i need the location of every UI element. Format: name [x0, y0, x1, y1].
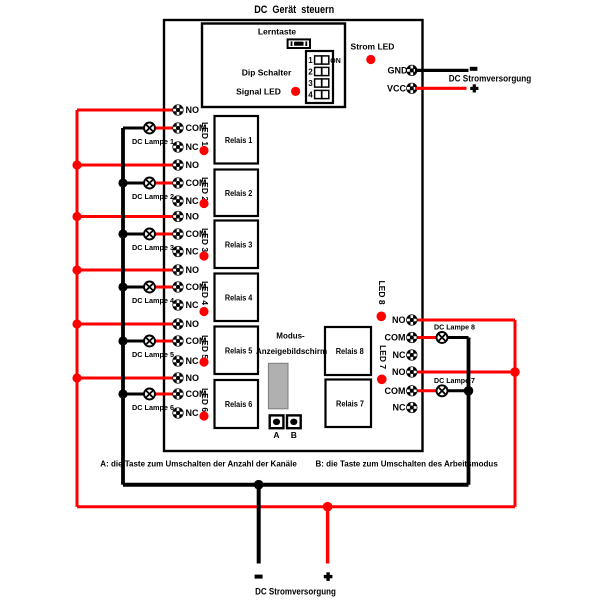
svg-text:Relais 6: Relais 6: [225, 400, 253, 409]
svg-text:Signal LED: Signal LED: [236, 87, 281, 97]
terminal NC ch4: [172, 299, 183, 310]
lamp symbol DC Lampe 6: [144, 389, 155, 400]
wire: lamp ch5 to black bus: [123, 340, 150, 343]
wire: red bus to NO terminal ch3: [77, 215, 178, 218]
svg-text:DC Lampe 5: DC Lampe 5: [132, 350, 175, 359]
svg-text:NC: NC: [186, 247, 199, 257]
wire: COM terminal ch2 to lamp (red): [150, 182, 179, 185]
svg-text:Relais 8: Relais 8: [336, 347, 365, 356]
terminal COM ch7: [406, 385, 417, 396]
svg-text:NC: NC: [186, 408, 199, 418]
svg-text:DC Stromversorgung: DC Stromversorgung: [255, 586, 336, 596]
svg-text:Relais 7: Relais 7: [336, 399, 365, 408]
terminal COM ch4: [172, 281, 183, 292]
junction on black bus at COM y=234: [118, 229, 127, 238]
svg-text:NO: NO: [186, 373, 200, 383]
junction lamp7 return on black bus: [464, 386, 474, 396]
LED 2 (red): [199, 199, 208, 208]
svg-text:DC Stromversorgung: DC Stromversorgung: [449, 74, 532, 84]
svg-text:COM: COM: [385, 333, 406, 343]
svg-text:NC: NC: [186, 142, 199, 152]
button B: [287, 415, 301, 428]
svg-text:NC: NC: [393, 403, 406, 413]
junction red supply drop: [323, 502, 333, 512]
Signal LED (red): [291, 87, 300, 96]
svg-text:DC Lampe 4: DC Lampe 4: [132, 296, 175, 305]
terminal NC ch3: [172, 246, 183, 257]
svg-text:LED 2: LED 2: [200, 177, 210, 201]
svg-text:NC: NC: [186, 300, 199, 310]
wire: right black bus: [467, 338, 471, 485]
supply minus symbol (bottom): [255, 575, 263, 579]
wire: lamp ch1 to black bus: [123, 127, 150, 130]
junction on black bus at COM y=341: [118, 336, 127, 345]
terminal NO ch4: [172, 264, 183, 275]
relay Relais 3: [215, 221, 259, 269]
svg-text:Relais 2: Relais 2: [225, 189, 253, 198]
junction black supply drop: [254, 480, 264, 490]
svg-text:DC Lampe 1: DC Lampe 1: [132, 137, 175, 146]
wire: left black bus (lamp return rail): [121, 128, 125, 485]
terminal COM ch1: [172, 122, 183, 133]
wire: lamp ch8 to right black bus: [442, 336, 469, 339]
junction on red bus at NO y=378: [72, 373, 81, 382]
wire: black drop to supply minus: [257, 485, 261, 564]
wire: NO ch7 to right red bus: [412, 371, 515, 374]
wire: red bus to NO terminal ch4: [77, 269, 178, 272]
terminal NC ch6: [172, 407, 183, 418]
relay Relais 2: [215, 170, 259, 217]
lamp symbol DC Lampe 5: [144, 336, 155, 347]
relay Relais 6: [215, 380, 259, 428]
svg-text:VCC: VCC: [387, 83, 407, 93]
LED 8 (red): [377, 312, 387, 322]
lamp symbol DC Lampe 7: [437, 385, 448, 396]
wire: NO ch8 to right red bus: [412, 319, 515, 322]
supply minus symbol (top): [470, 67, 478, 71]
svg-text:3: 3: [308, 79, 313, 88]
relay Relais 5: [215, 327, 259, 375]
svg-text:DC Lampe 3: DC Lampe 3: [132, 243, 174, 252]
terminal NO ch2: [172, 159, 183, 170]
wire: COM ch7 to lamp (red): [412, 389, 442, 392]
svg-text:Relais 5: Relais 5: [225, 346, 253, 355]
wire: left red bus (NO rail): [76, 110, 79, 507]
svg-text:B: die Taste zum Umschalten de: B: die Taste zum Umschalten des Arbeitsm…: [316, 460, 499, 469]
terminal NC ch5: [172, 355, 183, 366]
junction on red bus at NO y=216.5: [72, 212, 81, 221]
relay Relais 4: [215, 274, 259, 322]
wire: red bus to NO terminal ch5: [77, 323, 178, 326]
svg-text:ON: ON: [330, 58, 341, 65]
lamp symbol DC Lampe 4: [144, 282, 155, 293]
svg-text:LED 4: LED 4: [200, 281, 210, 305]
svg-text:NC: NC: [186, 196, 199, 206]
LED 6 (red): [199, 411, 208, 420]
terminal NO ch1: [172, 104, 183, 115]
junction on black bus at COM y=394: [118, 389, 127, 398]
svg-text:1: 1: [308, 56, 313, 65]
junction on red bus at NO y=165: [72, 160, 81, 169]
svg-text:GND: GND: [388, 66, 409, 76]
svg-text:Relais 3: Relais 3: [225, 240, 253, 249]
wire: COM terminal ch1 to lamp (red): [150, 127, 179, 130]
svg-text:NO: NO: [186, 212, 200, 222]
svg-text:4: 4: [308, 91, 313, 100]
relay Relais 1: [215, 116, 259, 164]
module outline box: [164, 20, 423, 451]
svg-text:NO: NO: [186, 105, 200, 115]
svg-text:Anzeigebildschirm: Anzeigebildschirm: [256, 347, 327, 356]
supply plus symbol (bottom): [324, 572, 333, 581]
wire: red bus to NO terminal ch1: [77, 109, 178, 112]
svg-text:NC: NC: [393, 350, 406, 360]
LED 4 (red): [199, 307, 208, 316]
svg-text:Strom LED: Strom LED: [351, 42, 395, 52]
svg-text:NC: NC: [186, 356, 199, 366]
display screen (LCD): [268, 363, 288, 409]
wire: red drop to supply plus: [326, 507, 329, 564]
svg-text:NO: NO: [186, 265, 200, 275]
terminal NO ch6: [172, 372, 183, 383]
junction on black bus at COM y=287: [118, 282, 127, 291]
wire: lamp ch4 to black bus: [123, 286, 150, 289]
terminal COM ch8: [406, 332, 417, 343]
wire: COM terminal ch3 to lamp (red): [150, 233, 179, 236]
terminal NC ch2: [172, 195, 183, 206]
junction on red bus at NO y=324: [72, 319, 81, 328]
wire: lamp ch3 to black bus: [123, 233, 150, 236]
terminal GND: [406, 65, 417, 76]
svg-text:NO: NO: [392, 315, 406, 325]
svg-text:A: die Taste zum Umschalten de: A: die Taste zum Umschalten der Anzahl d…: [100, 460, 297, 469]
wire: lamp ch7 to right black bus: [442, 389, 469, 392]
terminal NO ch7: [406, 366, 417, 377]
button A: [270, 415, 284, 428]
terminal NO ch8: [406, 314, 417, 325]
DIP switch S1: [306, 51, 341, 103]
control sub-box (Lerntaste / Dip Schalter): [202, 24, 345, 108]
supply plus symbol (top): [470, 84, 478, 92]
relay Relais 8: [325, 327, 371, 375]
svg-text:LED 1: LED 1: [200, 122, 210, 146]
svg-text:NO: NO: [186, 319, 200, 329]
terminal COM ch3: [172, 228, 183, 239]
LED 5 (red): [199, 357, 208, 366]
svg-text:DC Lampe 2: DC Lampe 2: [132, 192, 174, 201]
terminal NC ch1: [172, 141, 183, 152]
svg-text:DC Lampe 6: DC Lampe 6: [132, 403, 174, 412]
svg-text:LED 5: LED 5: [200, 335, 210, 359]
wire: right red bus: [514, 320, 517, 507]
terminal NO ch3: [172, 211, 183, 222]
svg-text:A: A: [273, 430, 279, 440]
terminal VCC: [406, 83, 417, 94]
terminal COM ch5: [172, 335, 183, 346]
LED 1 (red): [199, 146, 208, 155]
terminal COM ch6: [172, 388, 183, 399]
junction NO ch7 on red bus: [510, 367, 520, 377]
svg-text:LED 8: LED 8: [377, 280, 387, 304]
svg-text:Relais 1: Relais 1: [225, 136, 253, 145]
wire: red bus to NO terminal ch6: [77, 377, 178, 380]
wire: lamp ch2 to black bus: [123, 182, 150, 185]
relay Relais 7: [326, 380, 372, 428]
wire: COM terminal ch5 to lamp (red): [150, 340, 179, 343]
svg-text:2: 2: [308, 68, 313, 77]
svg-text:B: B: [291, 430, 297, 440]
LED 7 (red): [377, 375, 387, 385]
wire: lamp ch6 to black bus: [123, 393, 150, 396]
wire: COM ch8 to lamp (red): [412, 336, 442, 339]
wire VCC to supply plus: [415, 87, 467, 90]
junction on black bus at COM y=183: [118, 178, 127, 187]
lamp symbol DC Lampe 3: [144, 229, 155, 240]
svg-text:LED 6: LED 6: [200, 388, 210, 412]
pushbutton Lerntaste icon: [288, 39, 310, 48]
terminal NC ch8: [406, 349, 417, 360]
svg-text:NO: NO: [186, 160, 200, 170]
wire GND to supply minus: [415, 69, 469, 72]
svg-text:LED 3: LED 3: [200, 228, 210, 252]
wire: COM terminal ch6 to lamp (red): [150, 393, 179, 396]
wire: COM terminal ch4 to lamp (red): [150, 286, 179, 289]
Strom LED (red): [366, 55, 375, 64]
wire: bottom red rail: [77, 505, 515, 508]
svg-text:NO: NO: [392, 367, 406, 377]
svg-text:Relais 4: Relais 4: [225, 293, 253, 302]
svg-text:Modus-: Modus-: [276, 332, 305, 341]
terminal NO ch5: [172, 318, 183, 329]
svg-text:Dip Schalter: Dip Schalter: [242, 68, 292, 78]
terminal COM ch2: [172, 177, 183, 188]
svg-text:DC Gerät steuern: DC Gerät steuern: [254, 4, 334, 16]
wire: bottom black return: [123, 483, 469, 487]
svg-text:LED 7: LED 7: [378, 345, 388, 369]
wire: red bus to NO terminal ch2: [77, 164, 178, 167]
lamp symbol DC Lampe 8: [437, 332, 448, 343]
lamp symbol DC Lampe 2: [144, 178, 155, 189]
junction on red bus at NO y=270: [72, 265, 81, 274]
terminal NC ch7: [406, 402, 417, 413]
svg-text:DC Lampe 8: DC Lampe 8: [434, 323, 475, 332]
LED 3 (red): [199, 251, 208, 260]
svg-text:Lerntaste: Lerntaste: [258, 27, 297, 37]
lamp symbol DC Lampe 1: [144, 123, 155, 134]
svg-text:COM: COM: [385, 386, 406, 396]
